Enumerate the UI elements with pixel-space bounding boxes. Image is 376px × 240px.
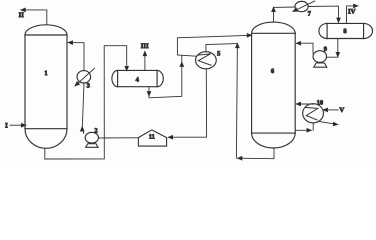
wire drum 8 bottoms to pump 9 bbox=[326, 39, 338, 58]
cooler 10 bbox=[303, 104, 324, 123]
column 6 bbox=[252, 22, 296, 148]
wire IV from drum 8 bbox=[347, 6, 357, 24]
svg-text:6: 6 bbox=[271, 68, 275, 75]
wire coolant V into cooler 10 bbox=[324, 109, 338, 111]
wire pump 9 discharge to column 6 top bbox=[298, 43, 314, 53]
heat exchanger 5 bbox=[196, 52, 217, 69]
wire feed I into column 1 bbox=[10, 124, 24, 126]
cooler 3 bbox=[77, 71, 91, 83]
wire bypass tee to column 6 feed bbox=[177, 35, 250, 56]
svg-text:3: 3 bbox=[87, 83, 91, 90]
drum 8 bbox=[319, 23, 373, 38]
wire suction from tank 11 to pump 2 bbox=[98, 137, 138, 139]
drum 4 bbox=[112, 70, 163, 86]
wire III vapor from drum 4 bbox=[144, 53, 146, 71]
pump 9 bbox=[313, 51, 327, 63]
wire drum 4 bottoms to exchanger 5 bbox=[149, 56, 182, 98]
wire reflux into column 1 top bbox=[68, 43, 84, 71]
svg-text:7: 7 bbox=[308, 10, 312, 17]
condenser 7 bbox=[295, 1, 308, 11]
wire pump 2 to cooler 3 bbox=[82, 83, 84, 134]
svg-text:9: 9 bbox=[324, 46, 328, 53]
svg-text:4: 4 bbox=[136, 76, 140, 83]
wire column 1 bottoms to drum 4 bbox=[45, 46, 127, 159]
wire exchanger 5 bottom to tank 11 bbox=[169, 69, 207, 137]
wire column 6 overhead to condenser 7 bbox=[274, 7, 296, 22]
svg-text:2: 2 bbox=[94, 128, 97, 135]
svg-text:IV: IV bbox=[348, 8, 356, 15]
svg-text:11: 11 bbox=[149, 133, 155, 140]
wire coolant out of cooler 10 bbox=[320, 122, 336, 125]
wire condenser 7 to drum 8 bbox=[308, 6, 338, 21]
svg-text:I: I bbox=[5, 122, 8, 129]
svg-text:1: 1 bbox=[44, 70, 47, 77]
column 1 bbox=[25, 25, 67, 148]
svg-text:8: 8 bbox=[343, 28, 347, 35]
wire column 6 bottoms to riser bbox=[238, 148, 274, 159]
wire cooler 10 return into column 6 bbox=[297, 103, 314, 105]
tank 11 bbox=[138, 130, 166, 146]
wire II overhead from column 1 bbox=[22, 10, 47, 25]
pump 2 bbox=[85, 132, 98, 143]
svg-text:5: 5 bbox=[217, 51, 221, 58]
svg-text:10: 10 bbox=[317, 100, 324, 107]
wire exchanger 5 top to column 6 bottoms riser bbox=[206, 44, 238, 159]
wire column 6 draw to cooler 10 bottom bbox=[295, 123, 313, 131]
svg-text:V: V bbox=[339, 107, 344, 114]
svg-text:II: II bbox=[19, 12, 25, 19]
svg-text:III: III bbox=[141, 43, 149, 50]
